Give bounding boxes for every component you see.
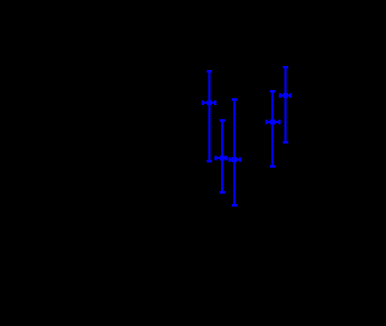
cap: P5 left: [279, 93, 281, 98]
wire: vertical error line P5: [284, 67, 286, 142]
data point 2 error bars: [216, 121, 227, 193]
cap: P5 bottom: [283, 141, 288, 144]
data point 5 error bars: [280, 67, 290, 142]
wire: vertical error line P4: [271, 91, 273, 166]
cap: P4 left: [265, 120, 267, 125]
wire: horizontal error line P5: [280, 94, 290, 96]
data point 3 error bars: [230, 100, 241, 206]
wire: vertical error line P2: [221, 121, 223, 193]
cap: P4 top: [270, 90, 275, 93]
wire: vertical error line P3: [233, 100, 235, 206]
cap: P1 left: [202, 100, 204, 105]
marker: P2 square: [220, 156, 225, 161]
cap: P4 right: [278, 120, 280, 125]
cap: P2 left: [214, 156, 216, 161]
wire: horizontal error line P1: [203, 102, 215, 104]
cap: P3 left: [228, 157, 230, 162]
cap: P2 right: [225, 156, 227, 161]
data point 4 error bars: [267, 91, 280, 166]
cap: P5 top: [283, 66, 288, 69]
cap: P1 bottom: [207, 160, 212, 163]
wire: horizontal error line P3: [230, 159, 241, 161]
cap: P1 right: [214, 100, 216, 105]
cap: P3 right: [239, 157, 241, 162]
marker: P5 square: [283, 93, 288, 98]
cap: P5 right: [289, 93, 291, 98]
marker: P4 square: [270, 120, 275, 125]
wire: horizontal error line P2: [216, 157, 227, 159]
marker: P3 square: [232, 157, 237, 162]
marker: P1 square: [207, 100, 212, 105]
cap: P3 bottom: [232, 204, 237, 207]
cap: P2 top: [220, 119, 225, 122]
wire: vertical error line P1: [208, 71, 210, 161]
wire: horizontal error line P4: [267, 121, 280, 123]
cap: P1 top: [207, 70, 212, 73]
cap: P2 bottom: [220, 191, 225, 194]
cap: P3 top: [232, 98, 237, 101]
cap: P4 bottom: [270, 165, 275, 168]
data point 1 error bars: [203, 71, 215, 161]
